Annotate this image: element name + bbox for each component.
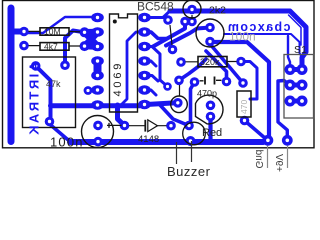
wire Q1 collector thick top run (logo top) [170, 11, 306, 66]
pad +9V [282, 135, 293, 146]
svg-text:4148: 4148 [138, 134, 159, 145]
transistor Q1 circle [183, 0, 201, 18]
svg-text:100n: 100n [50, 135, 84, 150]
wire Q2 base lead left trace [145, 103, 161, 107]
pad R5 top [238, 78, 248, 88]
svg-text:cbaxcom: cbaxcom [227, 20, 291, 34]
diode D1 4148 leads [129, 125, 167, 127]
pad R3 left [176, 57, 186, 67]
pads IC left column pins [91, 13, 104, 110]
pad diode right [166, 121, 176, 131]
wire pin6 stub [88, 89, 98, 93]
pad B2 [163, 15, 173, 25]
wire S1 pad pair bars [290, 70, 302, 102]
pad Q4 left [184, 121, 194, 131]
wire logo inner thin [289, 15, 302, 45]
wire Q2 top pad up-right diag [179, 59, 206, 80]
diode D1 triangle [148, 120, 158, 132]
pad Q1 top (in circle) [187, 5, 197, 15]
+9V leader [287, 146, 289, 169]
wire bottom bus [70, 141, 268, 143]
pads IC right column pins [138, 13, 151, 110]
wire IC pin1R to Q1 [145, 11, 171, 18]
svg-text:2k2: 2k2 [209, 5, 226, 17]
pad R3 right [236, 57, 246, 67]
wire Q3 bottom pad trace (circle2) to right vertical bus [210, 42, 269, 140]
pad cluster R1 right [80, 27, 90, 37]
Q2 lead line [179, 85, 181, 96]
svg-text:AIRTRAK: AIRTRAK [27, 62, 42, 137]
wire vertical pad193 to pad190 [191, 82, 195, 121]
buzzer leader lines [177, 141, 192, 164]
wire cluster H/X joins [85, 32, 99, 47]
svg-text:10M: 10M [44, 27, 61, 37]
pad Q3 top [205, 23, 215, 33]
Gnd leader [267, 146, 269, 169]
pad LED C1 top [93, 121, 103, 131]
antenna bar (thick vertical copper) [8, 8, 15, 142]
IC pin1 dot [113, 20, 117, 24]
svg-text:Red: Red [202, 127, 222, 139]
IC U1 4069 box [110, 14, 138, 112]
transistor Q4 circle [183, 122, 206, 145]
wire IC pins4-5 vertical join [94, 62, 102, 75]
svg-text:Gnd: Gnd [253, 150, 264, 169]
wire LED2 to bus [208, 117, 212, 142]
wire pot wiper riser [36, 66, 51, 122]
wire pot top-right up to cluster [65, 31, 85, 66]
pad mid 167 [163, 82, 172, 91]
svg-text:4k7: 4k7 [44, 41, 58, 51]
pad Q1 bottom [187, 17, 197, 27]
wire IC right chevrons [145, 47, 168, 96]
wire R3 right pad loop down [241, 62, 257, 100]
wire IC pin2R to pad B1 [145, 32, 167, 39]
pad LED C1 bottom [93, 137, 103, 147]
pad Gnd [263, 135, 274, 146]
wire underline swoosh of logo [224, 34, 302, 58]
pad Q3 bottom [205, 37, 215, 47]
wire logo to S1 pad [288, 36, 290, 70]
wire L1 diag to 470p right pad [206, 51, 227, 82]
potentiometer P1 box [23, 57, 76, 128]
svg-text:47k: 47k [46, 79, 61, 89]
pad Q2 center [173, 98, 183, 108]
svg-text:BC548: BC548 [137, 0, 174, 14]
pad pot top-right [60, 60, 70, 70]
transistor Q2 circle [171, 96, 188, 113]
LED D2 (Red) D-shape [196, 95, 223, 124]
wire diag2 pin4R via pad to Q2 top [166, 28, 210, 46]
svg-text:S1: S1 [294, 44, 307, 56]
B2 lead line [170, 25, 172, 45]
resistor R3 box 320k [186, 61, 237, 63]
svg-text:470p: 470p [197, 89, 217, 99]
pads S1 [285, 64, 308, 107]
transistor Q3 circle [196, 19, 224, 47]
resistor R1 box 10M [29, 30, 81, 33]
svg-text:Buzzer: Buzzer [167, 164, 211, 177]
electrolytic C1 circle [82, 116, 114, 148]
pad via left of pin6 [84, 86, 93, 95]
wire pad 244 diag to gnd pad [245, 121, 268, 141]
pad pot wiper [45, 117, 55, 127]
wire node A: pad R1-left to IC pin1 [24, 17, 95, 33]
Q1 lead line [191, 15, 193, 19]
capacitor C2 470p symbol [200, 79, 222, 82]
pad mid 172 [168, 45, 178, 55]
svg-text:470: 470 [239, 100, 249, 114]
svg-text:320k: 320k [200, 57, 220, 67]
pad Q2 top lead [174, 76, 184, 86]
wire diag1 pin3R up-right [153, 22, 185, 47]
svg-text:4069: 4069 [112, 61, 124, 97]
wire diag to LED1 pad [160, 105, 189, 126]
svg-text:+9V: +9V [273, 154, 284, 172]
pad Q4 bottom on bus [186, 136, 196, 146]
pad B1 [180, 17, 190, 27]
board outline [3, 1, 315, 148]
pad cluster R2 right [80, 41, 90, 51]
wire bar to pad R1 left [12, 29, 22, 35]
pad R1 left [19, 27, 29, 37]
diode D1 cathode bar [144, 120, 146, 132]
wire pot wiper diag to bottom bus [50, 122, 73, 142]
wire thick mid vertical to diode pad [118, 105, 125, 126]
pad R5 bottom [240, 116, 250, 126]
pad C470p right [222, 77, 232, 87]
wire +9V pad riser [278, 81, 290, 141]
pad R2 left [19, 41, 29, 51]
pad diode left [120, 121, 130, 131]
wire inside IC vertical [120, 32, 145, 106]
switch S1 box [284, 55, 314, 119]
C1 plus lead [107, 123, 122, 128]
pad pot top-left [31, 61, 41, 71]
pad LED2 top [206, 101, 216, 111]
resistor R5 470 box [237, 91, 251, 117]
wire L2 diag to R5 top pad [210, 44, 243, 83]
resistor R2 box 4k7 [29, 45, 81, 47]
wire horizontal mid run to IC pin7 and Q2 [51, 103, 178, 106]
pad C470p left [190, 77, 200, 87]
pad LED2 bottom [206, 112, 216, 122]
